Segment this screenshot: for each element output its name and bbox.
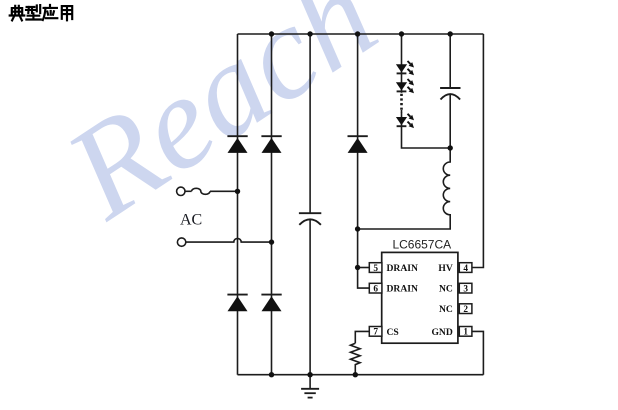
node bottom-R1 [353, 372, 358, 377]
LED string LEDn [396, 114, 414, 128]
wire CS to resistor [355, 331, 369, 343]
svg-text:1: 1 [463, 328, 468, 338]
wire AC live: terminal to fuse to bridge [185, 190, 191, 192]
capacitor C2 [440, 88, 460, 100]
title 典型应用 (drawn as strokes) [10, 5, 72, 20]
wire cap2 bottom lead [449, 95, 451, 148]
capacitor C1 [299, 213, 321, 225]
svg-text:CS: CS [387, 327, 399, 338]
svg-text:NC: NC [439, 284, 453, 295]
svg-text:4: 4 [463, 264, 468, 274]
node drain-inductor [355, 226, 360, 231]
node drain-pin5 [355, 265, 360, 270]
svg-text:7: 7 [373, 328, 378, 338]
node bottom-gnd [307, 372, 312, 377]
svg-text:Reach: Reach [40, 0, 400, 247]
node top-C1 [307, 31, 312, 36]
diode D3 (bridge lower-left) [227, 295, 247, 312]
svg-text:5: 5 [373, 264, 378, 274]
node bottom-D4 [269, 372, 274, 377]
op IC U1 LC6657CA body [382, 238, 458, 344]
wire input cap leg top [309, 34, 311, 213]
node top-C2 [448, 31, 453, 36]
wire GND return [472, 331, 484, 374]
wire fuse to bridge junction [210, 190, 238, 192]
wire drain pin5 stub [358, 267, 370, 269]
svg-text:3: 3 [463, 285, 468, 295]
LED string LED2 [396, 79, 414, 93]
AC terminal bottom [177, 238, 185, 246]
diode D2 (bridge upper-right) [261, 136, 281, 153]
pin 2 box [459, 304, 472, 315]
node AC neutral [269, 239, 274, 244]
svg-text:2: 2 [463, 305, 468, 315]
node LED return [448, 145, 453, 150]
wire LED dotted continuation [400, 94, 403, 113]
wire cap2 top lead [449, 34, 451, 88]
node top-D5 [355, 31, 360, 36]
diode D5 (freewheel) [348, 136, 368, 153]
wire HV leg [472, 34, 484, 268]
node top-D2 [269, 31, 274, 36]
wire bridge right leg [271, 34, 273, 375]
svg-text:AC: AC [180, 211, 202, 228]
node AC live [235, 189, 240, 194]
wire top bus [238, 33, 484, 35]
svg-text:6: 6 [373, 285, 378, 295]
pin 7 box [369, 327, 382, 338]
ground [301, 375, 319, 398]
fuse F1 [192, 188, 210, 194]
wire LED leg bottom + return to cap2 [402, 110, 451, 148]
pin 5 box [369, 263, 382, 274]
diode D4 (bridge lower-right) [261, 295, 281, 312]
wire drain leg [358, 34, 370, 288]
resistor R1 [351, 343, 361, 374]
watermark "Reach" [40, 0, 400, 247]
svg-text:GND: GND [431, 327, 452, 338]
node top-LED [399, 31, 404, 36]
svg-text:DRAIN: DRAIN [387, 284, 419, 295]
wire LED leg top [401, 34, 403, 93]
LED string LED1 [396, 61, 414, 75]
AC terminal top [177, 187, 185, 195]
inductor L1 [358, 148, 451, 229]
wire AC neutral with hop over left leg [186, 238, 272, 242]
svg-text:DRAIN: DRAIN [387, 263, 419, 274]
pin 6 box [369, 283, 382, 294]
wire input cap leg bottom [309, 220, 311, 375]
svg-text:HV: HV [438, 263, 452, 274]
svg-text:LC6657CA: LC6657CA [392, 238, 451, 252]
svg-text:NC: NC [439, 304, 453, 315]
pin 4 box [459, 263, 472, 274]
pin 1 box [459, 327, 472, 338]
diode D1 (bridge upper-left) [227, 136, 247, 153]
wire bottom bus [238, 374, 484, 376]
pin 3 box [459, 283, 472, 294]
wire bridge left leg [237, 34, 239, 375]
